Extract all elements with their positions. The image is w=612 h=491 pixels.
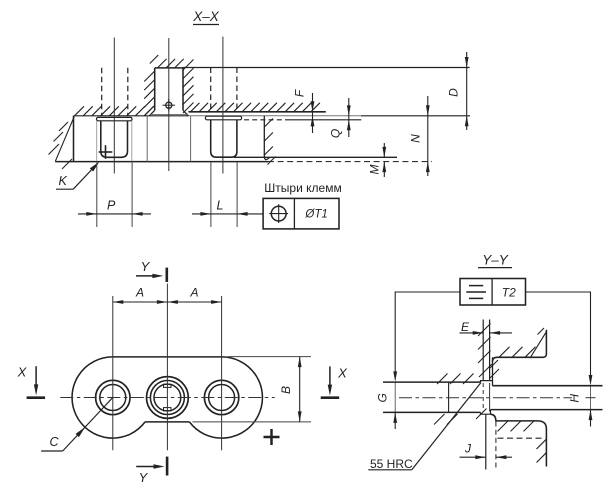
tongue right part bottom edge <box>491 409 603 411</box>
svg-text:D: D <box>447 88 461 97</box>
tongue right part top edge (H reference) <box>493 385 603 387</box>
corner mark K cross <box>99 151 113 153</box>
section mark Y top <box>166 268 169 282</box>
hatching section break edge <box>264 119 273 128</box>
block through-hole edges in plate <box>146 116 148 161</box>
hatching along terminal strip <box>191 103 200 112</box>
section break edge right of hole 2 <box>264 116 269 160</box>
plan hole 1 circles <box>96 380 130 414</box>
svg-text:F: F <box>293 89 307 97</box>
svg-text:T2: T2 <box>502 285 516 299</box>
hole 2 hidden pin lines (dashed) <box>210 68 212 112</box>
lower housing ledge <box>491 414 547 466</box>
lower housing hidden edge <box>498 437 543 439</box>
hatching left of block <box>144 71 155 82</box>
section mark X right <box>321 396 340 399</box>
dimension G lower part <box>394 412 396 429</box>
svg-text:55 HRC: 55 HRC <box>370 457 413 471</box>
symmetry symbol <box>469 285 483 287</box>
dimension N <box>427 96 429 162</box>
dimension P extension lines <box>96 162 98 227</box>
dimension A-A <box>113 301 222 303</box>
section mark Y bottom <box>166 457 169 476</box>
feature control frame <box>460 279 526 306</box>
tongue left part top edge <box>383 381 481 383</box>
leader C <box>63 398 113 452</box>
svg-text:H: H <box>568 394 582 403</box>
upper housing ledge <box>493 330 547 362</box>
plan vertical center line hole 3 <box>221 296 223 450</box>
plate bottom edge solid <box>55 161 268 163</box>
hatching above block top <box>150 55 159 64</box>
slot wall right line (E) <box>489 320 491 382</box>
svg-text:C: C <box>49 435 59 449</box>
svg-text:B: B <box>279 386 293 394</box>
hole 1 counterbore flange <box>97 117 133 120</box>
plate bottom edge hidden (dashed) <box>268 161 432 163</box>
plan outline bottom edge <box>145 421 189 423</box>
hole 1 hidden pin lines (dashed) <box>101 68 103 116</box>
hatching hardened zone bottom <box>434 414 445 425</box>
svg-text:Штыри клемм: Штыри клемм <box>264 181 341 195</box>
lower housing wall root <box>490 410 492 415</box>
svg-text:M: M <box>368 165 382 175</box>
terminal block foot line <box>150 113 187 115</box>
hole 2 center line / pin <box>222 37 224 174</box>
plus mark near B <box>264 436 280 439</box>
dimension P <box>78 213 97 215</box>
plan outline right lobe <box>189 357 262 438</box>
svg-text:A: A <box>189 286 198 300</box>
svg-text:N: N <box>409 134 423 143</box>
dimension J <box>460 456 486 458</box>
hole 1 bore hidden edges <box>96 121 98 162</box>
section Y-Y center line <box>399 397 572 399</box>
svg-text:G: G <box>376 393 390 402</box>
svg-text:J: J <box>464 442 472 456</box>
hole 1 cup <box>101 121 128 158</box>
plate top surface <box>74 115 189 117</box>
svg-text:A: A <box>135 286 144 300</box>
dimension D <box>466 52 468 130</box>
dimension L <box>192 213 211 215</box>
dimension Q <box>348 98 350 137</box>
hole 1 center line / pin <box>113 38 115 174</box>
terminal strip top edge (F lip) <box>188 111 325 113</box>
svg-text:ØT1: ØT1 <box>304 209 327 221</box>
dimension M <box>383 143 385 157</box>
terminal block outline <box>155 67 183 69</box>
tongue left part bottom edge <box>383 411 481 413</box>
leader left to datum G surface <box>395 292 460 376</box>
svg-text:Y: Y <box>141 259 151 274</box>
leader right to datum H surface <box>526 292 591 380</box>
hatching slot wall <box>478 324 491 337</box>
hole 2 recess flange <box>205 116 241 120</box>
dimension H lower part <box>590 410 592 427</box>
plan hole 2 circles <box>147 377 189 419</box>
dimension B extension lines <box>228 356 311 358</box>
plan outline top edge <box>113 356 222 358</box>
tongue top line (M reference) <box>234 156 397 158</box>
dimension F <box>312 93 314 133</box>
svg-text:X: X <box>17 365 28 380</box>
hatching left edge wedge <box>55 117 74 162</box>
section mark X left <box>27 396 45 399</box>
plate left edge <box>73 116 75 162</box>
svg-text:Q: Q <box>329 129 343 138</box>
svg-text:P: P <box>107 199 116 213</box>
svg-text:Y–Y: Y–Y <box>482 253 509 268</box>
plan horizontal center line <box>60 397 274 399</box>
dimension B <box>299 357 301 422</box>
position target mark on block <box>166 102 172 108</box>
hatching plate top surface left part <box>75 106 85 116</box>
leader K <box>73 164 97 190</box>
target symbol in table <box>271 206 286 221</box>
svg-text:X–X: X–X <box>192 9 220 24</box>
plan vertical center line hole 2 <box>166 284 168 451</box>
hatching hardened zone top <box>437 374 448 385</box>
plan hole 3 circles <box>204 380 238 414</box>
hatching right of block <box>183 60 194 71</box>
plan vertical center line hole 1 <box>112 296 114 450</box>
svg-text:K: K <box>59 174 68 188</box>
hole 2 cup <box>211 120 237 157</box>
slot wall hidden through tongue <box>482 383 484 412</box>
slot wall below tongue solid <box>485 414 487 470</box>
svg-text:L: L <box>217 199 224 213</box>
tongue top tab at slot <box>481 381 493 383</box>
svg-text:X: X <box>337 366 348 381</box>
svg-text:Y: Y <box>139 470 149 485</box>
tongue joint line <box>448 382 450 412</box>
upper housing wall root <box>492 357 494 385</box>
dimension L extension lines <box>210 162 212 227</box>
tongue bottom tab at slot <box>481 412 491 414</box>
recess bottom line (Q reference) <box>244 119 286 121</box>
plan outline left lobe <box>72 357 145 438</box>
slot wall below tongue hidden <box>495 422 497 470</box>
hatching lower ledge <box>498 421 509 432</box>
pin diameter table <box>263 198 339 229</box>
top line of clamp body (D reference) <box>183 67 470 69</box>
plan hole 2 key notches <box>164 384 172 387</box>
hatching upper ledge <box>499 347 510 358</box>
slot wall left line (E) <box>482 320 484 382</box>
hatching lower wall <box>537 439 547 449</box>
svg-text:E: E <box>461 320 470 334</box>
terminal block center line <box>168 38 170 171</box>
dimension E <box>460 332 484 334</box>
